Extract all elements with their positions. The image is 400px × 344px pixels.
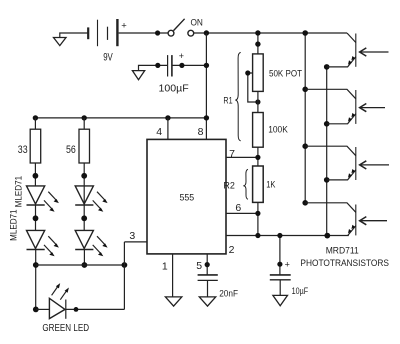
wire D4 to cathode bus xyxy=(83,250,85,266)
svg-text:100K: 100K xyxy=(268,125,288,136)
wire pot to 100K xyxy=(257,91,259,112)
phototransistor Q2 MRD711 xyxy=(305,89,385,124)
phototransistor Q1 MRD711 xyxy=(327,33,389,67)
svg-text:100µF: 100µF xyxy=(159,83,189,94)
svg-text:5: 5 xyxy=(196,260,202,272)
wire main vertical rail to pin 8 xyxy=(205,33,207,139)
junction dot pin 7 node xyxy=(255,155,260,160)
LED D4 MLED71 xyxy=(75,230,107,256)
junction dot below 56 ohm xyxy=(81,173,87,179)
svg-text:GREEN LED: GREEN LED xyxy=(42,323,89,334)
svg-text:2: 2 xyxy=(229,244,235,256)
junction dot on cathode bus (left) xyxy=(33,262,39,268)
resistor R2 1K xyxy=(253,166,276,202)
junction dot between D3 and D4 xyxy=(81,215,87,221)
ground (10uF) xyxy=(273,295,288,305)
svg-text:MRD711: MRD711 xyxy=(326,246,359,256)
wire rail to 56 ohm xyxy=(83,118,85,129)
svg-text:10µF: 10µF xyxy=(292,286,309,297)
resistor 100K xyxy=(253,113,289,148)
wire 56 ohm to LED D3 xyxy=(83,163,85,230)
svg-text:+: + xyxy=(179,51,184,61)
junction dot at switch input xyxy=(155,30,160,35)
wire horizontal supply rail xyxy=(35,117,206,119)
svg-text:+: + xyxy=(121,21,127,32)
junction dot pin 8 xyxy=(204,115,209,120)
junction dot between D1 and D2 xyxy=(33,215,39,221)
potentiometer 50K POT xyxy=(245,54,302,105)
wire cathode bus xyxy=(36,264,125,266)
svg-text:1: 1 xyxy=(162,261,168,273)
ground (20nF) xyxy=(199,297,215,306)
pin 4 xyxy=(156,118,168,139)
svg-text:4: 4 xyxy=(156,126,162,138)
junction dot on cathode bus (middle) xyxy=(82,262,88,268)
ground (100uF) xyxy=(132,71,144,80)
svg-text:50K POT: 50K POT xyxy=(269,68,302,79)
capacitor C1 100uF xyxy=(159,51,189,94)
junction dot below 33 ohm xyxy=(33,173,39,179)
capacitor 20nF xyxy=(198,275,239,300)
svg-text:20nF: 20nF xyxy=(219,289,238,300)
junction dot emitter Q2 xyxy=(324,121,330,127)
ground (battery negative) xyxy=(54,38,67,46)
svg-text:555: 555 xyxy=(179,193,194,203)
pin 6 xyxy=(226,202,258,214)
junction dot left of 100uF xyxy=(155,63,160,68)
junction dot collector rail top xyxy=(302,30,308,36)
wire emitter rail xyxy=(326,67,328,236)
LED D1 MLED71 xyxy=(27,186,59,212)
junction dot cathode bus to pin3 xyxy=(122,262,128,268)
wire rail to 33 ohm xyxy=(34,118,36,129)
junction dot above pot xyxy=(255,41,260,46)
junction dot top of main vertical xyxy=(204,30,209,35)
svg-text:R1: R1 xyxy=(223,95,232,106)
IC U1 555 timer xyxy=(147,139,226,254)
junction dot above 56 ohm xyxy=(82,115,87,120)
phototransistor Q4 MRD711 xyxy=(305,203,387,236)
switch ON xyxy=(168,17,203,36)
svg-text:7: 7 xyxy=(229,148,235,160)
junction dot chain to pin 2 line xyxy=(255,233,260,238)
LED green xyxy=(36,283,89,334)
svg-text:56: 56 xyxy=(66,144,76,156)
wire 10uF to ground xyxy=(279,280,281,296)
junction dot pin 4 xyxy=(165,115,170,120)
svg-text:3: 3 xyxy=(129,230,135,242)
svg-text:+: + xyxy=(285,260,290,270)
LED D2 MLED71 xyxy=(27,230,59,256)
junction dot at green LED anode xyxy=(33,307,39,313)
resistor 56 xyxy=(66,129,90,163)
wire D2 to green LED line xyxy=(35,250,37,310)
resistor 33 xyxy=(18,129,41,163)
pin 2 xyxy=(226,236,349,256)
capacitor 10uF xyxy=(270,233,308,297)
wire ground to capacitor xyxy=(139,65,168,70)
phototransistor Q3 MRD711 xyxy=(305,146,389,180)
battery B1 9V xyxy=(88,19,127,63)
ground (pin 1) xyxy=(165,297,181,306)
wire green LED to pin3 vertical xyxy=(66,308,125,310)
junction dot collector Q4 xyxy=(302,200,308,206)
svg-text:ON: ON xyxy=(191,17,203,28)
junction dot emitter Q3 xyxy=(324,177,330,183)
brace R1 xyxy=(223,52,240,140)
svg-text:PHOTOTRANSISTORS: PHOTOTRANSISTORS xyxy=(300,257,389,268)
junction dot emitter Q1 xyxy=(324,64,330,70)
junction dot on top rail (chain) xyxy=(255,30,260,35)
pin 3 xyxy=(124,230,147,242)
wire D1 to D2 xyxy=(35,205,37,230)
svg-text:R2: R2 xyxy=(223,180,235,191)
junction dot right of 100uF xyxy=(179,63,184,68)
pin 7 xyxy=(226,148,258,160)
wire battery to switch xyxy=(119,32,169,34)
wire capacitor to rail xyxy=(173,64,207,66)
junction dot pin 6 node xyxy=(255,211,260,216)
brace R2 xyxy=(223,169,248,199)
svg-text:33: 33 xyxy=(18,144,28,156)
junction dot above 33 ohm xyxy=(33,115,38,120)
pin 1 xyxy=(162,254,173,297)
junction dot green LED cathode xyxy=(74,307,79,312)
LED D3 MLED71 xyxy=(75,186,107,212)
wire ground to battery xyxy=(60,33,88,38)
junction dot collector Q2 xyxy=(302,87,308,93)
wire collector rail xyxy=(304,33,306,203)
svg-text:MLED71: MLED71 xyxy=(8,210,18,241)
wire 1K to pin 2 line xyxy=(257,202,259,235)
wire 100K to 1K xyxy=(257,147,259,166)
junction dot on main vertical xyxy=(204,63,209,68)
wire pin 3 vertical xyxy=(123,242,125,310)
svg-text:9V: 9V xyxy=(103,51,113,63)
svg-text:8: 8 xyxy=(198,126,204,138)
svg-text:MLED71: MLED71 xyxy=(14,176,24,207)
junction dot emitter rail to pin 2 line xyxy=(324,233,330,239)
wire top rail to pot xyxy=(257,33,259,54)
wire 20nF to ground xyxy=(207,280,209,297)
junction dot collector Q3 xyxy=(302,143,308,149)
svg-text:1K: 1K xyxy=(266,179,276,190)
pin 5 xyxy=(196,254,210,275)
wire switch to top rail xyxy=(194,32,347,34)
svg-text:6: 6 xyxy=(235,202,241,214)
wire 33 ohm to LED D1 xyxy=(34,163,36,186)
